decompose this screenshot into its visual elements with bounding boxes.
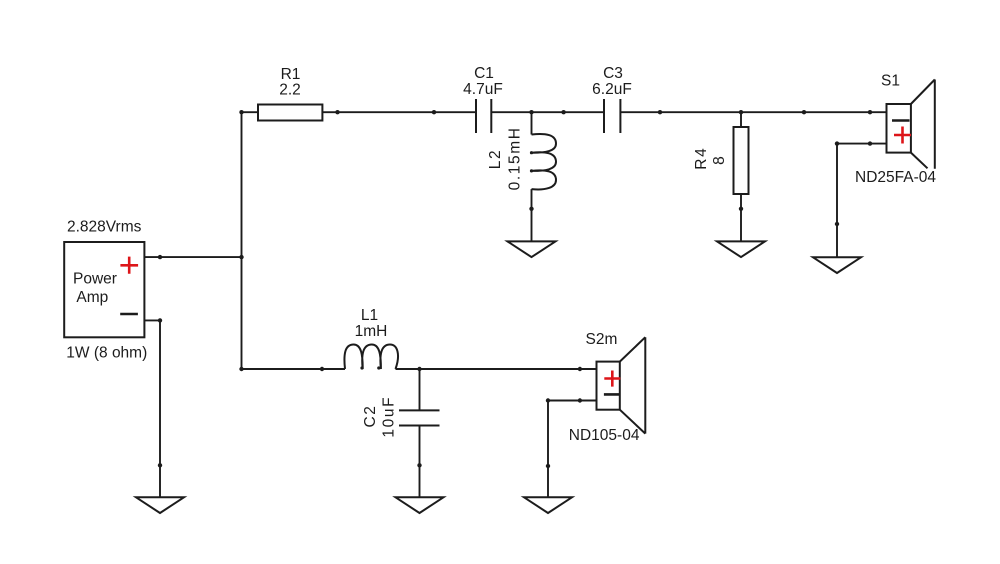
- svg-text:C1: C1: [474, 65, 494, 82]
- wire R1 to C1: [338, 111, 477, 113]
- svg-text:2.2: 2.2: [279, 82, 301, 99]
- wire L1 to S2m: [396, 368, 597, 370]
- junction dot S2m return vertical: [546, 464, 550, 468]
- svg-text:S2m: S2m: [586, 331, 618, 348]
- junction dot S2m return corner: [546, 398, 550, 402]
- svg-text:L1: L1: [361, 307, 378, 324]
- junction dot mid wire: [432, 110, 436, 114]
- S1 plus symbol: [894, 127, 911, 144]
- capacitor C3: [604, 99, 620, 133]
- svg-text:C3: C3: [603, 65, 623, 82]
- S1 minus symbol: [892, 119, 910, 122]
- svg-text:L2: L2: [487, 149, 504, 169]
- ground below power amp: [136, 497, 184, 513]
- svg-text:ND105-04: ND105-04: [569, 427, 640, 444]
- junction dot L2 coil 2: [530, 169, 533, 172]
- wire amp plus terminal to node A: [144, 256, 241, 258]
- junction dot minus vertical: [158, 463, 162, 467]
- junction top of bus: [239, 110, 243, 114]
- svg-text:1mH: 1mH: [355, 323, 388, 340]
- power amp plus symbol: [120, 257, 138, 274]
- S2m plus symbol: [604, 371, 620, 387]
- svg-text:Amp: Amp: [76, 289, 108, 306]
- junction dot S1 return corner: [835, 141, 839, 145]
- ground below R4: [717, 241, 765, 257]
- wire C3 to S1: [620, 111, 886, 113]
- junction node C2 top: [417, 367, 421, 371]
- junction dot L1 coil 2: [377, 366, 380, 369]
- junction dot at S2m input: [578, 367, 582, 371]
- junction dot mid wire to S1: [802, 110, 806, 114]
- resistor R4: [734, 112, 749, 241]
- ground below S2m: [524, 497, 572, 513]
- junction node A: [239, 255, 243, 259]
- junction dot bottom branch: [320, 367, 324, 371]
- svg-text:4.7uF: 4.7uF: [463, 81, 503, 98]
- junction dot L2 coil 1: [530, 151, 533, 154]
- junction dot minus terminal: [158, 318, 162, 322]
- junction dot after C3: [658, 110, 662, 114]
- inductor L1: [344, 345, 398, 370]
- junction node R4 top: [739, 110, 743, 114]
- svg-text:R1: R1: [281, 66, 301, 83]
- junction bottom of bus: [239, 367, 243, 371]
- wire S1 return: [837, 144, 887, 258]
- junction dot right of R1: [335, 110, 339, 114]
- junction dot S1 return near box: [868, 141, 872, 145]
- capacitor C2: [399, 369, 440, 497]
- junction node L2 top: [529, 110, 533, 114]
- junction dot S1 return vertical: [835, 222, 839, 226]
- svg-text:8: 8: [711, 155, 728, 165]
- wire bottom branch to L1: [242, 368, 346, 370]
- wire amp minus terminal: [144, 320, 160, 497]
- junction dot on plus terminal: [158, 255, 162, 259]
- resistor R1: [242, 105, 338, 121]
- speaker S1: [887, 80, 935, 169]
- inductor L2: [532, 112, 557, 241]
- svg-text:C2: C2: [362, 404, 379, 427]
- svg-text:10uF: 10uF: [381, 396, 398, 438]
- ground below S1: [813, 257, 861, 273]
- ground below C2: [396, 497, 444, 513]
- wire main vertical bus: [241, 112, 243, 369]
- svg-text:ND25FA-04: ND25FA-04: [855, 169, 936, 186]
- junction dot under C2: [417, 463, 421, 467]
- junction dot under L2: [529, 207, 533, 211]
- junction dot L1 coil 1: [360, 366, 363, 369]
- ground below L2: [508, 241, 556, 257]
- wire C1 to C3: [491, 111, 604, 113]
- svg-text:Power: Power: [73, 271, 117, 288]
- power amp box: [64, 242, 144, 337]
- svg-text:6.2uF: 6.2uF: [592, 81, 632, 98]
- capacitor C1: [476, 99, 491, 133]
- svg-text:R4: R4: [693, 147, 710, 170]
- S2m minus symbol: [604, 393, 620, 396]
- junction dot right of L2: [561, 110, 565, 114]
- svg-text:0.15mH: 0.15mH: [506, 126, 523, 190]
- junction dot under R4: [739, 207, 743, 211]
- svg-text:1W (8 ohm): 1W (8 ohm): [66, 345, 147, 362]
- speaker S2m: [597, 337, 646, 433]
- svg-text:S1: S1: [881, 73, 900, 90]
- junction dot at S1 input: [868, 110, 872, 114]
- junction dot S2m return near box: [578, 398, 582, 402]
- svg-text:2.828Vrms: 2.828Vrms: [67, 219, 142, 236]
- wire S2m return: [548, 401, 597, 498]
- power amp minus symbol: [120, 313, 138, 316]
